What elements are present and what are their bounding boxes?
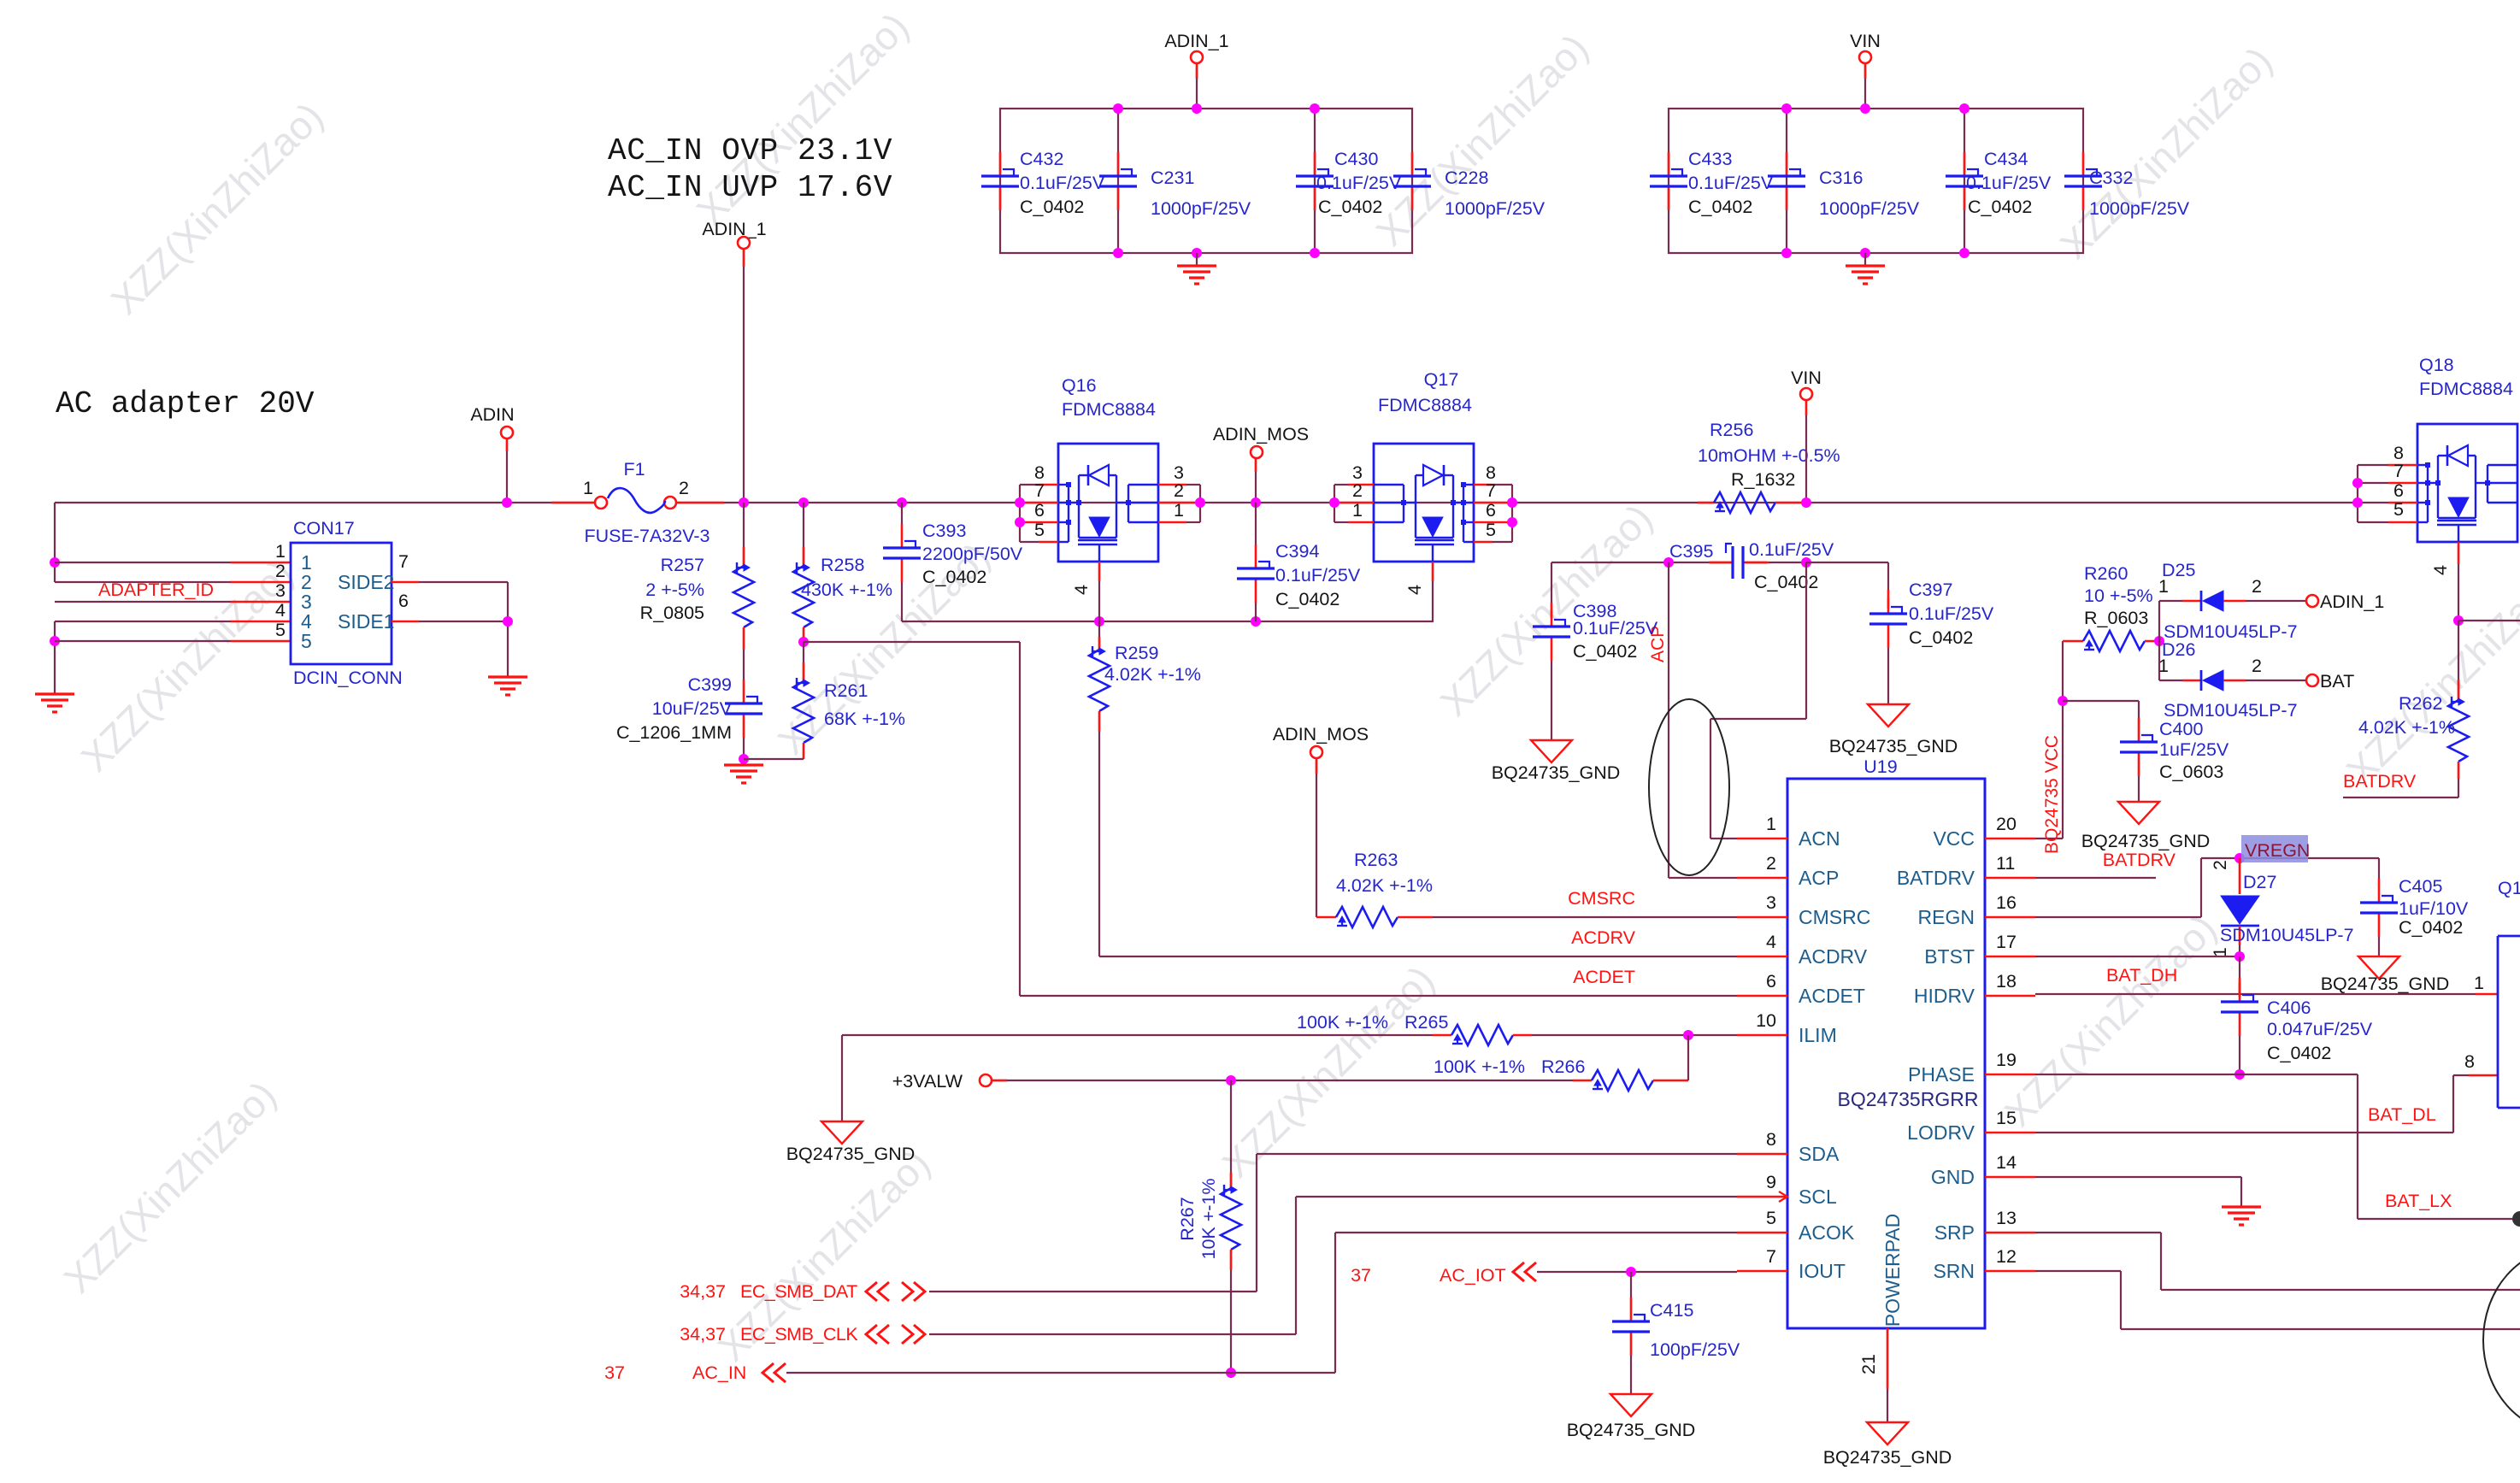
wire C395 row	[1551, 562, 1710, 563]
svg-text:14: 14	[1996, 1152, 2017, 1173]
terminal ADIN_1 right	[2306, 595, 2318, 607]
svg-text:12: 12	[1996, 1246, 2017, 1267]
node VIN/C395 junction	[1801, 557, 1811, 568]
svg-text:BQ24735_GND: BQ24735_GND	[786, 1144, 916, 1164]
svg-text:R260: R260	[2084, 563, 2128, 584]
svg-text:68K +-1%: 68K +-1%	[824, 709, 905, 729]
wire ACDET from divider	[804, 641, 1020, 643]
svg-text:R266: R266	[1541, 1056, 1585, 1077]
svg-text:4: 4	[2430, 565, 2451, 575]
pin 20 VCC	[1985, 838, 2035, 840]
svg-text:BQ24735RGRR: BQ24735RGRR	[1838, 1088, 1979, 1110]
capacitor C434	[1964, 152, 1966, 175]
wire Q18 left bracket	[2357, 465, 2358, 522]
diode D27 SDM10U45LP-7	[2239, 858, 2241, 894]
resistor R259	[1098, 621, 1100, 650]
svg-text:5: 5	[301, 630, 312, 652]
pin 4 ACDRV	[1737, 956, 1787, 958]
resistor R262	[2458, 621, 2459, 700]
ground BQ24735_GND ILIM	[821, 1121, 863, 1144]
ic U19 BQ24735RGRR	[1787, 779, 1985, 1328]
resistor R265	[1451, 1025, 1513, 1045]
capacitor C398	[1551, 562, 1552, 618]
node bank1 top junctions	[1113, 103, 1123, 114]
svg-text:1: 1	[2158, 576, 2169, 597]
pin 13 SRP	[1985, 1232, 2035, 1234]
svg-text:ACDET: ACDET	[1573, 967, 1635, 987]
svg-text:34,37: 34,37	[680, 1324, 726, 1345]
wire R261 to ground	[744, 758, 804, 760]
wire ADIN_MOS to R263	[1316, 758, 1317, 917]
wire cap bank2 box	[1669, 109, 2083, 253]
svg-text:C_0402: C_0402	[1318, 197, 1382, 217]
ground earth C399	[724, 763, 763, 766]
svg-text:2200pF/50V: 2200pF/50V	[922, 544, 1023, 564]
net BAT_DH HIDRV	[2035, 993, 2476, 995]
svg-text:Q17: Q17	[1424, 369, 1459, 390]
node PHASE/C406 junction	[2234, 1069, 2245, 1080]
svg-text:C_0603: C_0603	[2159, 762, 2223, 782]
ground BQ24735_GND C397	[1868, 704, 1909, 727]
svg-text:R263: R263	[1354, 850, 1398, 870]
node Q16 bracket junctions	[1015, 497, 1025, 508]
wire ADIN_1 to bank	[1196, 63, 1198, 109]
svg-text:C393: C393	[922, 521, 966, 541]
svg-text:7: 7	[1034, 480, 1045, 501]
svg-text:EC_SMB_DAT: EC_SMB_DAT	[740, 1281, 857, 1302]
terminal BAT	[2306, 674, 2318, 686]
svg-text:BTST: BTST	[1924, 945, 1975, 968]
svg-text:C432: C432	[1020, 149, 1063, 169]
capacitor C395	[1709, 562, 1732, 564]
node C399/R261 junction	[739, 754, 749, 764]
capacitor C228	[1411, 152, 1414, 175]
svg-text:DCIN_CONN: DCIN_CONN	[293, 668, 403, 688]
svg-text:1uF/25V: 1uF/25V	[2159, 739, 2229, 760]
node Q18 gate junction	[2453, 615, 2464, 626]
svg-text:ILIM: ILIM	[1799, 1024, 1837, 1046]
pin 11 BATDRV	[1985, 877, 2035, 880]
net BATDRV pin11	[2035, 877, 2156, 879]
node Q16 gate junction	[1094, 616, 1104, 627]
node ADIN_1 bus junction	[739, 497, 749, 508]
black dot right edge	[2512, 1211, 2520, 1227]
svg-text:20: 20	[1996, 814, 2017, 834]
svg-text:R262: R262	[2399, 693, 2442, 714]
node C393 bus junction	[897, 497, 907, 508]
svg-text:2: 2	[1174, 480, 1184, 501]
svg-text:AC_IN UVP 17.6V: AC_IN UVP 17.6V	[608, 170, 892, 205]
svg-text:0.047uF/25V: 0.047uF/25V	[2267, 1019, 2373, 1039]
svg-text:5: 5	[275, 620, 286, 640]
resistor R263	[1316, 916, 1336, 919]
svg-text:GND: GND	[1931, 1166, 1975, 1188]
svg-text:10: 10	[1756, 1010, 1776, 1031]
svg-text:2: 2	[2211, 860, 2230, 870]
capacitor C406 bootstrap	[2239, 956, 2240, 992]
node ACP junction	[1663, 557, 1674, 568]
wire +3VALW row R266	[992, 1080, 1573, 1081]
wire bank1 ground stem	[1196, 253, 1198, 266]
svg-text:C400: C400	[2159, 719, 2203, 739]
svg-text:0.1uF/25V: 0.1uF/25V	[1966, 173, 2052, 193]
svg-text:100K +-1%: 100K +-1%	[1297, 1012, 1388, 1033]
pin 9 SCL	[1737, 1196, 1787, 1198]
node C400 junction	[2058, 696, 2068, 706]
svg-text:VREGN: VREGN	[2245, 840, 2310, 861]
wire ILIM gnd stem	[841, 1035, 843, 1121]
svg-text:C394: C394	[1275, 541, 1319, 562]
resistor R267	[1230, 1080, 1232, 1188]
svg-text:37: 37	[1351, 1265, 1371, 1286]
svg-text:AC_IN: AC_IN	[692, 1362, 746, 1383]
svg-text:2: 2	[1352, 480, 1363, 501]
svg-text:C_0402: C_0402	[2267, 1043, 2331, 1063]
svg-text:2 +-5%: 2 +-5%	[645, 580, 704, 600]
node C394 junction	[1251, 616, 1261, 627]
svg-text:R257: R257	[661, 555, 704, 575]
svg-text:0.1uF/25V: 0.1uF/25V	[1909, 603, 1994, 624]
wire BTST pin17	[2035, 956, 2240, 957]
svg-text:BQ24735_GND: BQ24735_GND	[2081, 831, 2211, 851]
wire VCC pin20 to R260	[2035, 838, 2063, 839]
svg-text:1uF/10V: 1uF/10V	[2399, 898, 2469, 919]
svg-text:10 +-5%: 10 +-5%	[2084, 586, 2153, 606]
wire GND pin14	[2035, 1176, 2241, 1178]
svg-text:2: 2	[275, 561, 286, 581]
svg-text:1000pF/25V: 1000pF/25V	[1445, 198, 1546, 219]
svg-text:16: 16	[1996, 892, 2017, 913]
capacitor C415	[1630, 1272, 1632, 1298]
pin 6 ACDET	[1737, 995, 1787, 997]
svg-text:BAT_DH: BAT_DH	[2106, 965, 2177, 986]
svg-text:CON17: CON17	[293, 518, 355, 538]
svg-text:Q18: Q18	[2419, 355, 2454, 375]
wire CON17 pin2	[55, 581, 231, 583]
wire Q16 left bracket	[1019, 485, 1021, 542]
net PHASE to BAT_LX	[2035, 1074, 2358, 1075]
node pin5 junction	[50, 636, 60, 646]
node pin1 junction	[50, 557, 60, 568]
wire REGN to VREGN	[2035, 916, 2201, 918]
node bank2 bottom junctions	[1781, 248, 1792, 258]
svg-text:3: 3	[1766, 892, 1776, 913]
net SRP	[2035, 1232, 2161, 1233]
svg-text:ADIN_1: ADIN_1	[702, 219, 766, 239]
svg-text:15: 15	[1996, 1108, 2017, 1128]
svg-text:VCC: VCC	[1933, 827, 1975, 850]
svg-text:BQ24735_GND: BQ24735_GND	[2321, 974, 2450, 994]
svg-text:PHASE: PHASE	[1908, 1063, 1975, 1086]
pin 4 Q17 gate	[1432, 562, 1434, 581]
svg-text:ADIN_1: ADIN_1	[2320, 591, 2384, 612]
wire ACP column	[1668, 562, 1669, 878]
svg-text:6: 6	[1486, 500, 1496, 521]
svg-text:R259: R259	[1115, 643, 1158, 663]
wire ILIM row	[842, 1034, 1433, 1036]
svg-text:4.02K +-1%: 4.02K +-1%	[1336, 875, 1433, 896]
svg-text:VIN: VIN	[1791, 368, 1822, 388]
svg-text:U19: U19	[1864, 756, 1897, 777]
svg-text:7: 7	[1766, 1246, 1776, 1267]
svg-text:SRP: SRP	[1934, 1221, 1975, 1244]
wire VIN drop	[1805, 400, 1807, 503]
svg-text:FDMC8884: FDMC8884	[1062, 399, 1156, 420]
svg-text:BQ24735 VCC: BQ24735 VCC	[2042, 735, 2062, 854]
svg-text:BQ24735_GND: BQ24735_GND	[1492, 762, 1621, 783]
node D25/D26 junction	[2154, 636, 2164, 646]
node Q17 right junctions	[1507, 497, 1517, 508]
capacitor C394	[1255, 544, 1257, 568]
svg-text:C397: C397	[1909, 580, 1952, 600]
svg-text:100pF/25V: 100pF/25V	[1650, 1339, 1740, 1360]
resistor R261	[803, 642, 804, 681]
diode D25 SDM10U45LP-7	[2159, 600, 2182, 602]
svg-text:C_0402: C_0402	[1573, 641, 1637, 662]
wire ACDRV from R259	[1098, 732, 1100, 956]
svg-text:R258: R258	[821, 555, 864, 575]
wire BATDRV net right	[2458, 779, 2459, 797]
svg-text:5: 5	[2393, 499, 2404, 520]
node bank1 bottom junctions	[1113, 248, 1123, 258]
node ADIN bus junction	[502, 497, 512, 508]
svg-text:ADIN_MOS: ADIN_MOS	[1273, 724, 1369, 744]
svg-text:5: 5	[1486, 520, 1496, 540]
svg-text:10mOHM +-0.5%: 10mOHM +-0.5%	[1698, 445, 1840, 466]
wire CON17 pin6	[392, 621, 419, 623]
svg-text:430K +-1%: 430K +-1%	[801, 580, 892, 600]
node ILIM/R266 junction	[1683, 1030, 1693, 1040]
svg-text:13: 13	[1996, 1208, 2017, 1228]
svg-text:5: 5	[1034, 520, 1045, 540]
svg-text:ACDRV: ACDRV	[1571, 927, 1636, 948]
svg-text:Q15: Q15	[2498, 878, 2520, 898]
svg-text:SDA: SDA	[1799, 1143, 1840, 1165]
svg-text:D27: D27	[2243, 872, 2276, 892]
capacitor C400	[2063, 700, 2139, 702]
svg-text:5: 5	[1766, 1208, 1776, 1228]
svg-text:CMSRC: CMSRC	[1799, 906, 1870, 928]
svg-text:C395: C395	[1669, 541, 1713, 562]
svg-text:C430: C430	[1334, 149, 1378, 169]
wire ADIN drop	[506, 438, 508, 503]
svg-text:SIDE2: SIDE2	[338, 571, 394, 593]
svg-text:BATDRV: BATDRV	[1897, 867, 1975, 889]
wire left drop to CON17	[54, 503, 56, 582]
svg-text:1000pF/25V: 1000pF/25V	[1819, 198, 1920, 219]
pin 21 POWERPAD	[1887, 1328, 1889, 1389]
pin 3 CMSRC	[1737, 916, 1787, 919]
svg-text:2: 2	[2252, 576, 2262, 597]
svg-text:ADAPTER_ID: ADAPTER_ID	[98, 580, 214, 600]
capacitor C433	[1668, 152, 1670, 175]
svg-text:1: 1	[275, 541, 286, 562]
net LODRV BAT_DL	[2035, 1132, 2453, 1133]
svg-text:4.02K +-1%: 4.02K +-1%	[2358, 717, 2455, 738]
svg-text:FDMC8884: FDMC8884	[2419, 379, 2513, 399]
svg-text:6: 6	[2393, 480, 2404, 501]
svg-text:POWERPAD: POWERPAD	[1881, 1214, 1904, 1327]
annotation arc right edge	[2483, 1248, 2520, 1433]
svg-text:REGN: REGN	[1918, 906, 1975, 928]
ground BQ24735_GND C400	[2118, 802, 2159, 824]
svg-text:C231: C231	[1151, 168, 1194, 188]
resistor R266	[1592, 1070, 1653, 1091]
ground BQ24735_GND pin21	[1867, 1422, 1908, 1445]
fuse F1	[595, 497, 607, 509]
svg-text:VIN: VIN	[1850, 31, 1881, 51]
svg-text:1000pF/25V: 1000pF/25V	[1151, 198, 1251, 219]
svg-text:R_0603: R_0603	[2084, 608, 2148, 628]
wire CON17 pin1	[55, 562, 231, 563]
svg-text:100K +-1%: 100K +-1%	[1434, 1056, 1525, 1077]
transistor Q15 partial	[2497, 936, 2499, 1108]
wire CON17 pin5	[55, 640, 231, 642]
pin 16 REGN	[1985, 916, 2035, 919]
net label VREGN highlight	[2241, 835, 2308, 862]
svg-text:1: 1	[2474, 973, 2484, 993]
svg-text:AC_IOT: AC_IOT	[1440, 1265, 1506, 1286]
ground earth left	[35, 692, 74, 695]
svg-text:7: 7	[1486, 480, 1496, 501]
node R267/AC_IN junction	[1226, 1368, 1236, 1378]
svg-text:17: 17	[1996, 932, 2017, 952]
svg-text:C_0402: C_0402	[1275, 589, 1339, 609]
svg-text:0.1uF/25V: 0.1uF/25V	[1020, 173, 1105, 193]
node bank2 top junctions	[1781, 103, 1792, 114]
svg-text:9: 9	[1766, 1172, 1776, 1192]
svg-text:ADIN_MOS: ADIN_MOS	[1213, 424, 1309, 444]
svg-text:37: 37	[604, 1362, 625, 1383]
svg-text:ACP: ACP	[1799, 867, 1839, 889]
svg-text:BAT_LX: BAT_LX	[2385, 1191, 2452, 1211]
pin 2 ACP	[1737, 877, 1787, 880]
svg-text:C_0402: C_0402	[1909, 627, 1973, 648]
node Q18 bracket junctions	[2352, 478, 2363, 488]
svg-text:19: 19	[1996, 1050, 2017, 1070]
resistor R260	[2063, 640, 2083, 643]
resistor R256	[1698, 502, 1714, 504]
svg-text:FDMC8884: FDMC8884	[1378, 395, 1472, 415]
svg-text:1: 1	[1766, 814, 1776, 834]
svg-text:1: 1	[1174, 500, 1184, 521]
pin 9 SCL input arrow	[1779, 1192, 1787, 1202]
svg-text:R267: R267	[1177, 1197, 1198, 1240]
svg-text:1: 1	[583, 478, 593, 498]
svg-text:2: 2	[1766, 853, 1776, 874]
pin 4 Q18 gate	[2458, 542, 2460, 564]
svg-text:10K +-1%: 10K +-1%	[1198, 1178, 1219, 1259]
resistor R257	[743, 503, 745, 566]
svg-text:C433: C433	[1688, 149, 1732, 169]
capacitor C231	[1117, 152, 1120, 175]
wire Q18 gate to right	[2458, 620, 2520, 621]
svg-text:R261: R261	[824, 680, 868, 701]
svg-text:C332: C332	[2089, 168, 2133, 188]
capacitor C397	[1887, 598, 1890, 609]
wire cap bank1 box	[1000, 109, 1412, 253]
svg-text:C_0402: C_0402	[1968, 197, 2032, 217]
wire ADIN_1 drop	[743, 249, 745, 503]
svg-text:0.1uF/25V: 0.1uF/25V	[1275, 565, 1361, 586]
svg-text:1: 1	[1352, 500, 1363, 521]
svg-text:6: 6	[398, 591, 409, 611]
svg-text:AC adapter 20V: AC adapter 20V	[56, 386, 315, 421]
svg-text:C_0402: C_0402	[2399, 917, 2463, 938]
ground BQ24735_GND C398	[1531, 740, 1572, 762]
svg-text:ACN: ACN	[1799, 827, 1840, 850]
node C415 junction	[1626, 1267, 1636, 1277]
pin 5 ACOK	[1737, 1232, 1787, 1234]
svg-text:11: 11	[1996, 853, 2015, 874]
svg-text:C_0402: C_0402	[1688, 197, 1752, 217]
svg-text:BAT_DL: BAT_DL	[2368, 1104, 2436, 1125]
svg-text:ADIN_1: ADIN_1	[1164, 31, 1228, 51]
svg-text:BATDRV: BATDRV	[2103, 850, 2176, 870]
svg-text:CMSRC: CMSRC	[1568, 888, 1635, 909]
capacitor C399	[743, 650, 745, 680]
svg-text:ADIN: ADIN	[470, 404, 514, 425]
svg-text:7: 7	[2393, 461, 2404, 481]
svg-text:Q16: Q16	[1062, 375, 1097, 396]
pin 18 HIDRV	[1985, 995, 2035, 997]
svg-text:SCL: SCL	[1799, 1186, 1837, 1208]
pin 15 LODRV	[1985, 1132, 2035, 1134]
wire Q17 right bracket	[1511, 485, 1513, 542]
pin 7 IOUT	[1737, 1270, 1787, 1273]
pin 10 ILIM	[1737, 1034, 1787, 1037]
svg-text:0.1uF/25V: 0.1uF/25V	[1573, 618, 1658, 639]
svg-text:FUSE-7A32V-3: FUSE-7A32V-3	[585, 526, 710, 546]
svg-text:C_0402: C_0402	[922, 567, 986, 587]
svg-text:1: 1	[2158, 656, 2169, 676]
svg-text:BQ24735_GND: BQ24735_GND	[1829, 736, 1958, 756]
svg-text:ACDET: ACDET	[1799, 985, 1865, 1007]
pin 14 GND	[1985, 1176, 2035, 1179]
node VREGN/D27 junction	[2234, 853, 2245, 863]
wire ADIN_MOS drop / C394	[1255, 458, 1257, 503]
svg-text:C_1206_1MM: C_1206_1MM	[616, 722, 732, 743]
node R267 top junction	[1226, 1075, 1236, 1086]
svg-text:C228: C228	[1445, 168, 1488, 188]
wire bank2 ground stem	[1864, 253, 1866, 266]
pin 12 SRN	[1985, 1270, 2035, 1273]
svg-text:R_0805: R_0805	[640, 603, 704, 623]
pin 17 BTST	[1985, 956, 2035, 958]
svg-text:8: 8	[1766, 1129, 1776, 1150]
connector CON17	[291, 543, 392, 664]
svg-text:+3VALW: +3VALW	[892, 1071, 963, 1092]
svg-text:34,37: 34,37	[680, 1281, 726, 1302]
ground earth pin14	[2222, 1205, 2261, 1208]
svg-text:R_1632: R_1632	[1731, 469, 1795, 490]
capacitor C430	[1314, 152, 1316, 175]
capacitor C432	[999, 152, 1002, 175]
svg-text:BAT: BAT	[2320, 671, 2354, 691]
node C394 bus junction	[1251, 497, 1261, 508]
svg-text:R256: R256	[1710, 420, 1753, 440]
svg-text:R265: R265	[1404, 1012, 1448, 1033]
svg-text:6: 6	[1766, 971, 1776, 992]
svg-text:SDM10U45LP-7: SDM10U45LP-7	[2164, 700, 2298, 721]
svg-text:10uF/25V: 10uF/25V	[652, 698, 733, 719]
svg-text:BATDRV: BATDRV	[2343, 771, 2417, 792]
wire VIN to bank	[1864, 63, 1866, 109]
svg-text:0.1uF/25V: 0.1uF/25V	[1316, 173, 1402, 193]
svg-text:0.1uF/25V: 0.1uF/25V	[1688, 173, 1774, 193]
svg-text:F1: F1	[623, 459, 645, 480]
svg-text:4.02K +-1%: 4.02K +-1%	[1104, 664, 1201, 685]
